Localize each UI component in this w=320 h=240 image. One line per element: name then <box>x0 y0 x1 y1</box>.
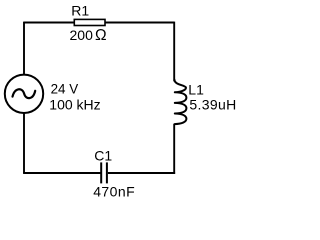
wire right-bottom segment <box>173 124 175 174</box>
AC source sine symbol <box>13 89 36 98</box>
svg-text:5.39uH: 5.39uH <box>189 96 236 112</box>
svg-text:L1: L1 <box>188 82 204 98</box>
inductor L1 coil <box>174 80 186 125</box>
svg-text:C1: C1 <box>94 147 112 163</box>
wire top-right segment <box>105 22 174 24</box>
wire top-left segment <box>24 22 74 24</box>
capacitor C1 left plate <box>100 162 102 183</box>
svg-text:R1: R1 <box>71 3 89 19</box>
svg-text:470nF: 470nF <box>93 183 135 199</box>
wire bottom-right segment <box>108 172 175 174</box>
wire left-bottom segment <box>23 113 25 173</box>
AC source V1 circle <box>5 75 43 113</box>
wire bottom-left segment <box>23 172 100 174</box>
svg-text:24 V: 24 V <box>51 82 79 97</box>
svg-text:200Ω: 200Ω <box>70 27 107 44</box>
svg-text:100 kHz: 100 kHz <box>49 97 100 113</box>
resistor R1 body <box>74 19 105 25</box>
wire right-top segment <box>173 22 175 82</box>
wire left-top segment <box>23 22 25 75</box>
capacitor C1 right plate <box>106 162 108 183</box>
